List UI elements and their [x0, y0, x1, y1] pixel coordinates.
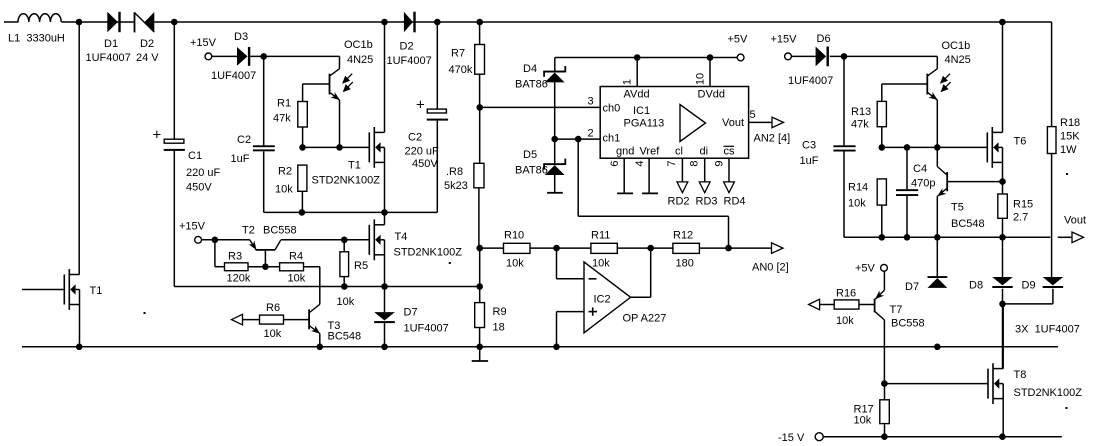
svg-text:R13: R13 — [851, 106, 871, 118]
wire Vout rail — [844, 236, 1050, 238]
svg-text:R2: R2 — [278, 166, 292, 178]
svg-text:T6: T6 — [1014, 136, 1027, 148]
svg-text:IC2: IC2 — [594, 294, 611, 306]
wire IC1 pin 10 — [709, 58, 711, 87]
svg-text:1UF4007: 1UF4007 — [387, 55, 432, 67]
transistor T4 (STD2NK100Z) — [368, 225, 370, 255]
svg-text:2: 2 — [587, 128, 593, 140]
plus sign IC2 — [589, 311, 598, 313]
svg-text:T7: T7 — [890, 304, 903, 316]
svg-text:RD2: RD2 — [668, 196, 690, 208]
junction IC2 + / rail — [553, 344, 560, 351]
wire R3-R4 node — [248, 266, 280, 268]
svg-text:T1: T1 — [90, 285, 103, 297]
junction R15 / D8 — [999, 234, 1006, 241]
junction D6 / C3 node — [841, 53, 848, 60]
op-amp IC1 PGA113 box — [600, 87, 748, 159]
overline for cs — [724, 145, 735, 147]
wire top rail after L1 — [62, 21, 135, 23]
arrow Vout output — [1072, 232, 1084, 243]
svg-text:1W: 1W — [1060, 144, 1077, 156]
wire R12 to AN0 arrow — [699, 247, 771, 249]
svg-text:ch1: ch1 — [603, 133, 621, 145]
svg-text:BC548: BC548 — [951, 218, 985, 230]
svg-text:D8: D8 — [969, 280, 983, 292]
terminal +15V (mid) — [195, 236, 202, 243]
junction R14 bottom — [879, 234, 886, 241]
svg-text:450V: 450V — [186, 182, 212, 194]
junction top rail / R7 node — [476, 19, 483, 26]
stray dot 1 — [144, 312, 146, 314]
svg-text:D7: D7 — [905, 281, 919, 293]
wire down to R3 — [214, 240, 216, 267]
wire source line — [174, 286, 479, 288]
svg-text:T2: T2 — [242, 225, 255, 237]
stray dot 3 — [1066, 173, 1068, 175]
svg-text:6: 6 — [609, 161, 621, 167]
junction source line / R8 chain — [476, 283, 483, 290]
svg-text:di: di — [700, 146, 709, 158]
resistor R5 — [343, 240, 345, 252]
junction top rail / L1-D1 node — [76, 19, 83, 26]
transistor T7 (BC558) — [883, 271, 885, 290]
wire IC2 output up — [650, 248, 652, 297]
resistor R8 — [478, 188, 480, 248]
junction T2 collector / R5 — [341, 237, 348, 244]
svg-text:R14: R14 — [848, 182, 868, 194]
junction top rail / C1 node — [171, 19, 178, 26]
wire R6 to T3 base — [284, 319, 310, 321]
svg-text:IC1: IC1 — [633, 105, 650, 117]
svg-text:18: 18 — [493, 322, 505, 334]
svg-text:+5V: +5V — [728, 34, 749, 46]
diode D6 — [816, 47, 827, 67]
wire ch1 line — [555, 138, 601, 140]
junction pin10 / +5V — [707, 54, 714, 61]
svg-text:C3: C3 — [802, 140, 816, 152]
arrow RD3 — [699, 182, 710, 193]
svg-text:1UF4007: 1UF4007 — [86, 52, 131, 64]
svg-text:T4: T4 — [395, 231, 408, 243]
wire D9 cathode down — [1052, 289, 1054, 304]
svg-text:8: 8 — [688, 161, 700, 167]
svg-text:24 V: 24 V — [136, 52, 159, 64]
svg-text:cs: cs — [724, 146, 736, 158]
transistor T8 (STD2NK100Z) — [987, 369, 989, 399]
wire R8 down to R9 — [479, 248, 481, 303]
terminal +15V (right) — [785, 53, 792, 60]
junction R3/R4/T2 base — [262, 263, 269, 270]
svg-text:3X 1UF4007: 3X 1UF4007 — [1015, 324, 1080, 336]
svg-text:D2: D2 — [140, 38, 154, 50]
svg-text:450V: 450V — [412, 158, 438, 170]
resistor R7 — [479, 22, 481, 45]
wire T2 collector to T4 gate — [281, 239, 369, 241]
wire corner down to OC1b right collector — [936, 56, 938, 68]
svg-text:10k: 10k — [275, 184, 293, 196]
wire to D7 anode — [384, 287, 386, 313]
svg-text:C2: C2 — [237, 134, 251, 146]
capacitor C2 1uF — [263, 56, 265, 145]
arrow RD4 — [724, 182, 735, 193]
svg-text:+15V: +15V — [179, 221, 206, 233]
svg-text:470p: 470p — [911, 178, 935, 190]
svg-text:RD3: RD3 — [696, 196, 718, 208]
op-amp IC2 triangle — [584, 262, 631, 333]
svg-text:gnd: gnd — [616, 146, 634, 158]
svg-text:STD2NK100Z: STD2NK100Z — [312, 175, 381, 187]
svg-text:R5: R5 — [354, 260, 368, 272]
transistor T5 (BC548) — [946, 172, 948, 191]
svg-text:47k: 47k — [273, 113, 291, 125]
resistor R6 — [260, 315, 284, 324]
junction D7 / rail — [381, 344, 388, 351]
wire R4 right corner — [304, 266, 320, 268]
junction OC1b emitter / gate node — [336, 144, 343, 151]
svg-text:10k: 10k — [854, 415, 872, 427]
svg-text:ch0: ch0 — [603, 103, 621, 115]
svg-text:OP A227: OP A227 — [623, 313, 667, 325]
svg-text:Vout: Vout — [722, 117, 744, 129]
junction D8/D9 node — [999, 301, 1006, 308]
light arrows OC1b (right) — [941, 74, 951, 91]
svg-text:+: + — [153, 127, 162, 144]
resistor R18 — [1047, 127, 1056, 154]
resistor R3 — [225, 263, 249, 271]
svg-text:5: 5 — [749, 109, 755, 121]
svg-text:R7: R7 — [451, 48, 465, 60]
junction R13/R14 — [879, 144, 886, 151]
svg-text:OC1b: OC1b — [942, 40, 971, 52]
wire feedback horizontal — [578, 215, 728, 217]
wire right gate line — [882, 146, 988, 148]
junction top rail / T6 drain node — [999, 19, 1006, 26]
junction +15V / R3 branch — [212, 237, 219, 244]
capacitor C2 (electrolytic 220uF) — [436, 22, 438, 109]
svg-text:BAT86: BAT86 — [515, 79, 548, 91]
junction R5 bottom — [341, 283, 348, 290]
wire D4 anode down to ch1 node — [554, 82, 556, 163]
svg-text:R6: R6 — [266, 302, 280, 314]
svg-text:1uF: 1uF — [231, 153, 250, 165]
wire inverting input up — [556, 248, 558, 279]
junction T6 source / T5 base / R15 — [999, 178, 1006, 185]
wire upper section bottom rail — [264, 211, 438, 213]
svg-text:STD2NK100Z: STD2NK100Z — [394, 247, 463, 259]
wire R10 node to R10 — [480, 247, 504, 249]
wire +5V corner down to D4 — [554, 58, 556, 72]
junction T4 source / D7 — [381, 283, 388, 290]
svg-text:120k: 120k — [227, 273, 251, 285]
wire +15V to T2 emitter — [202, 239, 250, 241]
wire ch1 node down — [577, 139, 579, 216]
svg-text:10k: 10k — [848, 198, 866, 210]
light arrows OC1b (left) — [343, 74, 353, 91]
svg-text:47k: 47k — [851, 119, 869, 131]
opto-transistor OC1b (right) — [926, 74, 928, 95]
wire D9 to D8 node — [1003, 303, 1053, 305]
junction R9 / rail — [476, 344, 483, 351]
arrow input to R16 — [809, 299, 820, 310]
junction OC1b emitter / T5 collector — [934, 144, 941, 151]
arrow AN2 output — [772, 117, 784, 128]
wire to T8 gate — [884, 383, 988, 385]
inductor L1 — [18, 14, 61, 22]
wire top rail main — [154, 21, 1051, 23]
svg-text:4: 4 — [634, 161, 646, 167]
junction T5 emitter / D7 right — [934, 234, 941, 241]
ground symbol below R9 — [479, 347, 481, 361]
capacitor C3 1uF — [843, 56, 845, 145]
resistor R15 — [1002, 182, 1004, 194]
wire IC2 output — [631, 296, 651, 298]
IC1 cs pin lead — [728, 158, 730, 182]
svg-text:AN0 [2]: AN0 [2] — [752, 262, 789, 274]
svg-text:1UF4007: 1UF4007 — [211, 70, 256, 82]
wire D6 to OC1b right corner — [830, 55, 938, 57]
svg-text:R10: R10 — [504, 230, 524, 242]
svg-text:RD4: RD4 — [724, 196, 746, 208]
svg-text:1UF4007: 1UF4007 — [788, 75, 833, 87]
junction T7 collector / R17 / T8 gate — [881, 380, 888, 387]
svg-text:1: 1 — [622, 79, 634, 85]
svg-text:DVdd: DVdd — [698, 89, 726, 101]
wire arrow to R6 — [243, 319, 260, 321]
resistor R17 — [884, 384, 886, 400]
svg-text:10k: 10k — [337, 296, 355, 308]
diode D2 (second, 1UF4007) — [404, 12, 413, 33]
svg-text:C2: C2 — [408, 132, 422, 144]
svg-text:STD2NK100Z: STD2NK100Z — [1014, 387, 1083, 399]
IC1 internal amp triangle — [680, 105, 706, 142]
diode D9 — [1043, 277, 1064, 285]
diode D2 24V — [134, 12, 136, 32]
junction C4 bottom — [904, 234, 911, 241]
wire R18 down to D9 (hops Vout rail) — [1051, 154, 1053, 278]
svg-text:D4: D4 — [523, 63, 537, 75]
junction R12 / feedback — [725, 245, 732, 252]
transistor T1 (STD2NK100Z, mid) — [368, 132, 370, 162]
arrow RD2 — [677, 182, 688, 193]
junction R2 bottom — [299, 209, 306, 216]
svg-text:R4: R4 — [289, 251, 303, 263]
wire D7 right top — [936, 237, 938, 276]
wire feedback down to R12 output node — [728, 216, 730, 248]
junction R8 / R10 node — [476, 245, 483, 252]
wire IC1 Vout pin 5 — [749, 121, 772, 123]
svg-text:2.7: 2.7 — [1013, 212, 1028, 224]
IC1 di pin lead — [704, 158, 706, 182]
wire D7 cathode to rail — [384, 323, 386, 347]
junction D4-D5 / ch1 — [551, 136, 558, 143]
svg-text:D5: D5 — [523, 149, 537, 161]
wire +15V to D3 — [212, 55, 237, 57]
stray dot 4 — [1066, 407, 1068, 409]
IC1 cl pin lead — [681, 158, 683, 182]
junction T1 source / T4 drain — [381, 209, 388, 216]
svg-text:+15V: +15V — [771, 34, 798, 46]
svg-text:+5V: +5V — [855, 263, 876, 275]
svg-text:+15V: +15V — [190, 37, 217, 49]
svg-text:R1: R1 — [277, 98, 291, 110]
svg-text:C4: C4 — [913, 163, 927, 175]
terminator below D5 — [554, 175, 556, 193]
transistor T6 — [986, 132, 988, 162]
wire to R3 left — [215, 266, 225, 268]
terminal +5V (IC1) — [737, 54, 744, 61]
wire +5V rail — [555, 57, 737, 59]
junction R17 / bottom rail — [881, 433, 888, 440]
svg-text:OC1b: OC1b — [344, 39, 373, 51]
junction R11/R12/opamp out — [647, 245, 654, 252]
resistor R4 — [280, 263, 304, 271]
transistor T2 (BC558) — [256, 249, 275, 251]
IC1 Vref pin lead + ground bar — [648, 158, 650, 193]
svg-text:+: + — [416, 97, 425, 114]
svg-text:D3: D3 — [234, 31, 248, 43]
arrow input to R6 — [232, 314, 243, 325]
junction R10/R11/inverting input — [553, 245, 560, 252]
svg-text:1uF: 1uF — [800, 155, 819, 167]
diode D1 — [107, 12, 118, 32]
svg-text:-15 V: -15 V — [778, 432, 805, 444]
svg-text:BC558: BC558 — [263, 225, 297, 237]
svg-text:10k: 10k — [592, 258, 610, 270]
svg-text:cl: cl — [675, 146, 683, 158]
svg-text:R9: R9 — [493, 306, 507, 318]
wire main horizontal rail — [22, 346, 1058, 348]
svg-text:Vref: Vref — [640, 146, 661, 158]
wire R10 to R11 — [530, 247, 591, 249]
junction ch1 / feedback line — [575, 136, 582, 143]
svg-text:180: 180 — [676, 258, 694, 270]
wire D8 top — [1002, 237, 1004, 277]
resistor R2 — [301, 191, 303, 212]
svg-text:5k23: 5k23 — [444, 180, 468, 192]
svg-text:470k: 470k — [449, 64, 473, 76]
svg-text:10k: 10k — [836, 315, 854, 327]
svg-text:T8: T8 — [1014, 369, 1027, 381]
svg-text:1UF4007: 1UF4007 — [404, 323, 449, 335]
svg-text:BAT86: BAT86 — [515, 165, 548, 177]
svg-text:10k: 10k — [506, 258, 524, 270]
svg-text:10k: 10k — [288, 273, 306, 285]
svg-text:Vout: Vout — [1064, 215, 1086, 227]
wire bottom rail — [823, 436, 1061, 438]
svg-text:3: 3 — [587, 96, 593, 108]
transistor T1 (power, lower-left) — [63, 275, 65, 305]
svg-text:T1: T1 — [348, 160, 361, 172]
svg-text:AN2 [4]: AN2 [4] — [754, 133, 791, 145]
junction D3 / C2 node — [260, 53, 267, 60]
svg-text:4N25: 4N25 — [945, 54, 971, 66]
diode D8 — [992, 277, 1012, 285]
svg-text:D7: D7 — [404, 307, 418, 319]
diode D5 (BAT86) — [545, 163, 565, 165]
wire corner down to OC1b collector — [339, 56, 341, 68]
junction D7 right / rail — [934, 344, 941, 351]
wire IC1 pin 1 — [636, 58, 638, 87]
svg-text:R18: R18 — [1060, 117, 1080, 129]
resistor R11 — [591, 243, 617, 253]
diode D3 — [237, 47, 248, 66]
junction R1/R2 gate node — [299, 144, 306, 151]
terminal +15V (left) — [205, 53, 212, 60]
svg-text:.R8: .R8 — [446, 166, 463, 178]
diode D7 (1UF4007) — [374, 312, 395, 320]
opto-transistor OC1b (left) — [329, 74, 331, 95]
svg-text:D2: D2 — [400, 41, 414, 53]
svg-text:PGA113: PGA113 — [624, 118, 665, 130]
svg-text:D1: D1 — [104, 38, 118, 50]
svg-text:10: 10 — [695, 73, 707, 85]
svg-text:R16: R16 — [836, 288, 856, 300]
svg-text:9: 9 — [713, 161, 725, 167]
svg-text:T5: T5 — [951, 202, 964, 214]
wire non-inverting input — [557, 311, 585, 313]
wire D8 cathode down to T8 drain — [1002, 289, 1004, 369]
svg-text:BC558: BC558 — [891, 318, 925, 330]
resistor R16 — [834, 300, 859, 309]
junction pin1 / +5V — [634, 54, 641, 61]
svg-text:10k: 10k — [264, 328, 282, 340]
svg-text:AVdd: AVdd — [624, 89, 650, 101]
junction T3 emitter / rail — [317, 344, 324, 351]
wire T1 gate lead — [22, 289, 64, 291]
resistor R13 — [881, 84, 883, 101]
svg-text:220 uF: 220 uF — [186, 167, 221, 179]
wire top rail down to C1 — [173, 22, 175, 139]
svg-text:BC548: BC548 — [328, 331, 362, 343]
junction top rail / C2 node — [434, 19, 441, 26]
svg-text:15K: 15K — [1060, 131, 1080, 143]
wire down to T3 collector — [319, 267, 321, 305]
svg-text:7: 7 — [666, 161, 678, 167]
wire gate line (left) — [303, 146, 370, 148]
diode D7 (right) — [928, 276, 948, 278]
svg-text:L1 3330uH: L1 3330uH — [8, 33, 65, 45]
transistor T3 (BC548) — [308, 309, 310, 329]
junction T8 source / bottom rail — [999, 433, 1006, 440]
wire top rail left — [4, 21, 19, 23]
svg-text:R3: R3 — [228, 251, 242, 263]
terminal +5V (T7) — [881, 264, 888, 271]
svg-text:R11: R11 — [591, 230, 610, 242]
svg-text:220 uF: 220 uF — [405, 146, 440, 158]
junction R7/R8/ch0 — [476, 104, 483, 111]
svg-text:4N25: 4N25 — [347, 54, 373, 66]
resistor R12 — [673, 243, 700, 253]
resistor R9 — [479, 328, 481, 347]
arrow AN0 output — [772, 243, 784, 254]
stray dot 2 — [449, 262, 451, 264]
junction C4 top — [904, 144, 911, 151]
svg-text:C1: C1 — [188, 150, 202, 162]
wire Vout rail after hop — [1058, 236, 1072, 238]
minus sign IC2 — [589, 278, 597, 280]
wire D1 node down to T1 drain — [78, 22, 80, 275]
resistor R14 — [881, 205, 883, 237]
resistor R10 — [504, 243, 531, 253]
svg-text:D9: D9 — [1022, 280, 1036, 292]
wire top rail corner down to R18 — [1051, 22, 1053, 127]
junction top rail / T1 drain node — [381, 19, 388, 26]
wire ch0 line — [480, 106, 601, 108]
wire inverting input — [557, 278, 585, 280]
wire non-inverting input down — [556, 312, 558, 347]
wire D3 to OC1b collector corner — [250, 55, 339, 57]
resistor R1 — [302, 84, 304, 102]
